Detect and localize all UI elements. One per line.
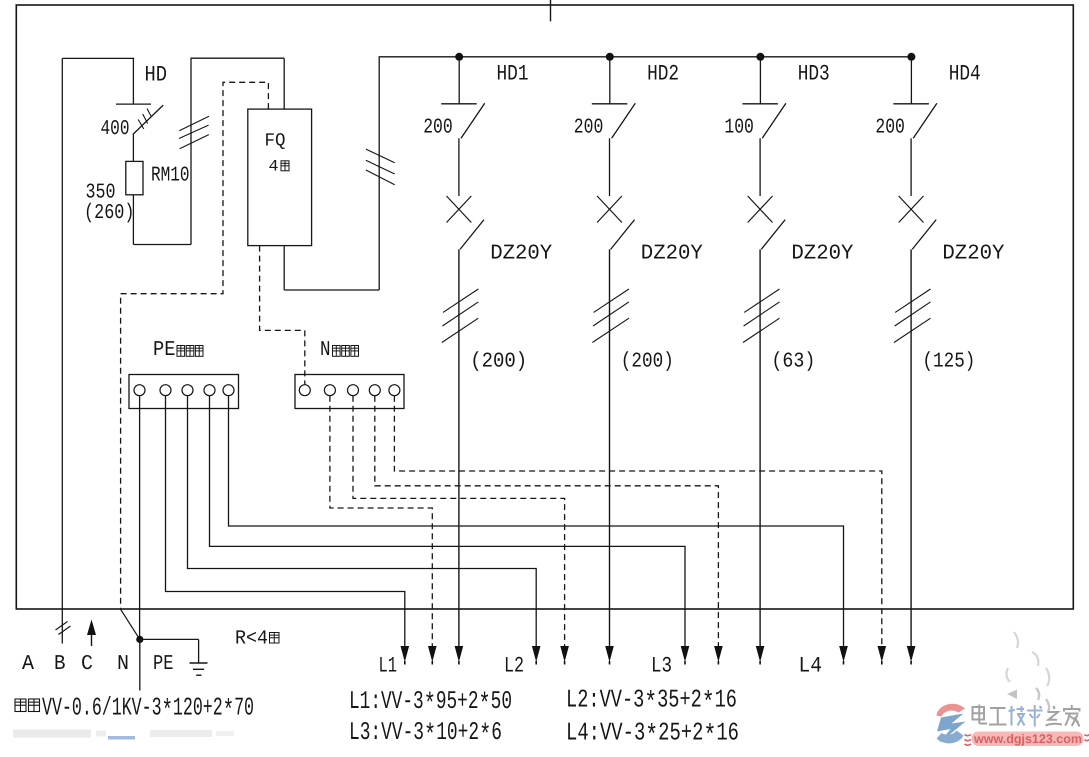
svg-text:L2: L2 xyxy=(504,654,524,679)
wire HD3 drop xyxy=(759,57,761,104)
wire N feed L1 (dashed) xyxy=(330,396,432,647)
disconnect switch HD3 blade xyxy=(762,103,786,138)
svg-text:DZ20Y: DZ20Y xyxy=(791,243,853,266)
svg-text:(63): (63) xyxy=(771,351,815,374)
arrow PE feed L1 xyxy=(401,646,410,662)
wire switch to fuse xyxy=(132,135,134,162)
wire N dashed FQ-bottom to N board xyxy=(260,246,305,385)
wire HD4 drop xyxy=(910,57,912,104)
wire loop3 bottom horizontal xyxy=(284,289,379,291)
wire PE feed L4 xyxy=(229,396,844,647)
arrow feeder HD4 xyxy=(907,646,916,662)
breaker HD2 blade xyxy=(611,220,635,250)
wire N dashed FQ-top riser xyxy=(121,82,269,609)
N board terminal 3 xyxy=(348,385,359,396)
phase marks HD4 xyxy=(895,289,930,312)
watermark logo xyxy=(937,632,1050,743)
wire HD2 feeder down xyxy=(609,249,611,647)
arrow C-phase (up) xyxy=(87,620,96,636)
wire PEN node to earth xyxy=(140,638,199,640)
arrow PE feed L4 xyxy=(839,646,848,662)
phase marks on loop2 riser xyxy=(179,116,209,131)
disconnect switch HD4 blade xyxy=(913,103,937,138)
label duan-zi-ban after N xyxy=(333,346,341,357)
wire HD2 drop xyxy=(609,57,611,104)
svg-text:HD: HD xyxy=(145,63,168,88)
watermark text dian-gong-ji-shu-zhi-jia xyxy=(973,705,988,724)
svg-text:PE: PE xyxy=(153,339,176,362)
arrow N feed L3 xyxy=(714,646,723,662)
svg-text:DZ20Y: DZ20Y xyxy=(641,243,703,266)
svg-text:N: N xyxy=(117,653,129,676)
junction node HD2 xyxy=(606,53,614,61)
RCD FQ box xyxy=(248,109,312,246)
disconnect switch HD4 bar xyxy=(893,103,929,105)
arrow feeder HD1 xyxy=(455,646,464,662)
wire HD3 switch to breaker xyxy=(759,138,761,196)
wire N feed L4 (dashed) xyxy=(394,396,881,647)
svg-text:N: N xyxy=(320,339,331,362)
faint watermark remnant bottom-left xyxy=(13,730,234,740)
svg-text:400: 400 xyxy=(101,118,130,141)
phase marks HD2 xyxy=(594,289,629,312)
wire PE feed L1 xyxy=(166,396,405,647)
svg-text:(260): (260) xyxy=(84,202,135,225)
svg-text:C: C xyxy=(81,653,93,676)
svg-text:(200): (200) xyxy=(621,351,674,374)
PE board terminal 4 xyxy=(204,385,215,396)
wire HD1 switch to breaker xyxy=(458,138,460,196)
breaker HD3 X mark xyxy=(748,196,773,223)
arrow N feed L2 xyxy=(560,646,569,662)
svg-text:HD1: HD1 xyxy=(497,61,529,86)
disconnect switch HD2 blade xyxy=(612,103,636,138)
wire HD4 switch to breaker xyxy=(910,138,912,196)
svg-text:DZ20Y: DZ20Y xyxy=(490,243,552,266)
phase marks HD1 xyxy=(443,289,478,312)
svg-text:www.dgjs123.com: www.dgjs123.com xyxy=(973,732,1082,746)
disconnect switch HD contact bar xyxy=(116,103,151,105)
junction node HD1 xyxy=(455,53,463,61)
wire PE feed L2 xyxy=(188,396,537,647)
PE terminal board box xyxy=(129,375,239,409)
svg-text:4: 4 xyxy=(269,158,279,176)
disconnect switch HD1 blade xyxy=(461,103,485,138)
PE board terminal 1 xyxy=(134,385,145,396)
top distribution bus xyxy=(379,56,912,58)
junction node HD3 xyxy=(756,53,764,61)
junction node HD4 xyxy=(907,53,915,61)
breaker HD1 blade xyxy=(460,220,484,250)
PE board terminal 5 xyxy=(223,385,234,396)
switch HD blade tick 2 xyxy=(143,114,148,124)
wire loop bottom horizontal xyxy=(133,244,191,246)
switch HD blade tick 3 xyxy=(138,120,144,130)
disconnect switch HD blade xyxy=(133,105,163,134)
svg-text:HD3: HD3 xyxy=(798,61,830,86)
N board terminal 5 xyxy=(389,385,400,396)
wire HD3 feeder down xyxy=(759,249,761,647)
title block leader line at top xyxy=(550,0,552,21)
fuse RM10 body xyxy=(126,161,143,194)
wire N diagonal to PEN node xyxy=(121,609,140,639)
wire HD4 feeder down xyxy=(910,249,912,647)
breaker HD4 X mark xyxy=(899,196,924,223)
svg-text:PE: PE xyxy=(153,653,174,676)
wire HD1 feeder down xyxy=(458,249,460,647)
svg-text:HD2: HD2 xyxy=(647,61,679,86)
label zong-xian (bus cable) xyxy=(15,699,26,712)
svg-text:DZ20Y: DZ20Y xyxy=(942,243,1004,266)
label duan-zi-ban after PE xyxy=(177,346,185,357)
svg-text:(200): (200) xyxy=(470,351,527,374)
svg-text:L3: L3 xyxy=(651,654,672,679)
arrow N feed L4 xyxy=(878,646,887,662)
svg-text:L4: L4 xyxy=(799,654,823,679)
wire loop3 riser to bus xyxy=(378,57,380,290)
wire loop1 top xyxy=(62,57,134,59)
wire fuse to loop bottom xyxy=(132,195,134,245)
phase marks on loop3 riser xyxy=(366,149,395,163)
N board terminal 4 xyxy=(369,385,380,396)
svg-text:HD4: HD4 xyxy=(949,61,981,86)
wire loop2 left vertical xyxy=(190,58,192,245)
svg-text:L1: L1 xyxy=(379,654,398,679)
wire FQ bottom to loop3 xyxy=(283,246,285,290)
N board terminal 1 xyxy=(299,385,310,396)
wire HD2 switch to breaker xyxy=(609,138,611,196)
disconnect switch HD1 bar xyxy=(441,103,477,105)
breaker HD4 blade xyxy=(912,220,936,250)
arrow PE feed L2 xyxy=(532,646,541,662)
arrow PE feed L3 xyxy=(681,646,690,662)
svg-text:B: B xyxy=(54,653,66,676)
PE board terminal 2 xyxy=(160,385,171,396)
svg-text:RM10: RM10 xyxy=(151,164,190,187)
arrow N feed L1 xyxy=(428,646,437,662)
drawing frame border xyxy=(16,5,1073,609)
arrow feeder HD3 xyxy=(756,646,765,662)
PE board terminal 3 xyxy=(182,385,193,396)
phase marks on B riser xyxy=(56,622,68,631)
wire PE feed L3 xyxy=(210,396,686,647)
breaker HD3 blade xyxy=(761,220,785,250)
wire N feed L2 (dashed) xyxy=(353,396,565,647)
svg-text:100: 100 xyxy=(724,117,754,140)
wire HD1 drop xyxy=(458,57,460,104)
wire loop2 right down to FQ xyxy=(283,58,285,109)
PEN junction node xyxy=(136,636,143,643)
ground symbol xyxy=(198,639,200,663)
svg-text:200: 200 xyxy=(875,117,905,140)
arrow feeder HD2 xyxy=(605,646,614,662)
svg-text:200: 200 xyxy=(423,117,453,140)
wire PE pin1 to PEN node xyxy=(139,396,141,640)
breaker HD1 X mark xyxy=(447,196,472,223)
switch HD blade tick 1 xyxy=(147,109,152,118)
svg-text:R<4: R<4 xyxy=(235,628,268,651)
N terminal board box xyxy=(295,375,404,409)
breaker HD2 X mark xyxy=(597,196,622,223)
disconnect switch HD3 bar xyxy=(742,103,778,105)
wire B-phase riser (left vertical) xyxy=(61,58,63,643)
wire N feed L3 (dashed) xyxy=(375,396,719,647)
wire PEN node down (incoming N) xyxy=(139,639,141,690)
svg-text:(125): (125) xyxy=(922,351,975,374)
wire loop2 top xyxy=(191,57,284,59)
wire loop1 right upper xyxy=(132,58,134,104)
svg-text:200: 200 xyxy=(574,117,604,140)
watermark url band xyxy=(972,732,1084,747)
svg-text:A: A xyxy=(22,653,34,676)
phase marks HD3 xyxy=(744,289,779,312)
disconnect switch HD2 bar xyxy=(592,103,628,105)
svg-text:FQ: FQ xyxy=(265,131,286,152)
N board terminal 2 xyxy=(324,385,335,396)
